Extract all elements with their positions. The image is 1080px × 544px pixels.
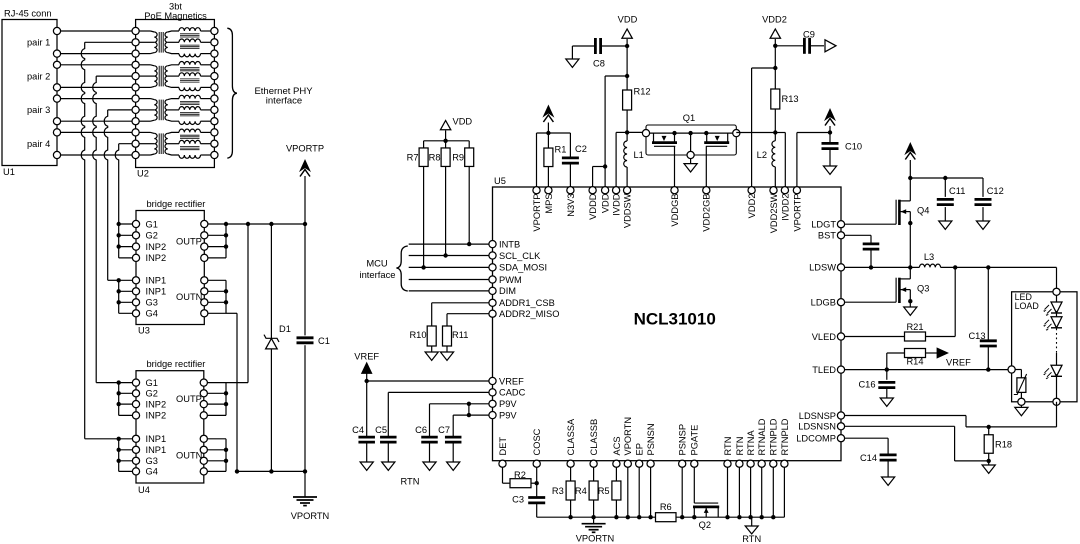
svg-text:R4: R4 <box>575 486 587 496</box>
svg-text:L1: L1 <box>634 150 644 160</box>
svg-text:RTN: RTN <box>735 437 745 456</box>
svg-text:COSC: COSC <box>532 428 542 455</box>
svg-text:U2: U2 <box>137 169 149 179</box>
svg-text:RTNPLD: RTNPLD <box>769 418 779 455</box>
svg-text:L3: L3 <box>924 252 934 262</box>
svg-text:G3: G3 <box>146 298 158 308</box>
svg-text:CLASSB: CLASSB <box>589 419 599 456</box>
svg-text:U1: U1 <box>3 167 15 177</box>
svg-text:ADDR2_MISO: ADDR2_MISO <box>499 309 559 319</box>
svg-text:INTB: INTB <box>499 239 520 249</box>
svg-text:interface: interface <box>360 269 396 280</box>
svg-text:R12: R12 <box>634 87 651 97</box>
svg-text:R21: R21 <box>906 322 923 332</box>
svg-text:C14: C14 <box>860 453 877 463</box>
svg-text:VDD2GB: VDD2GB <box>702 194 712 232</box>
svg-text:INP2: INP2 <box>146 411 167 421</box>
svg-text:R13: R13 <box>782 94 799 104</box>
svg-text:C2: C2 <box>575 144 587 154</box>
svg-text:C13: C13 <box>968 331 985 341</box>
svg-text:R8: R8 <box>429 153 441 163</box>
svg-text:D1: D1 <box>279 324 291 334</box>
svg-text:C10: C10 <box>845 142 862 152</box>
svg-text:pair 3: pair 3 <box>27 105 50 115</box>
svg-text:PSNSN: PSNSN <box>646 423 656 455</box>
svg-text:VDDD: VDDD <box>588 193 598 220</box>
svg-text:C12: C12 <box>987 186 1004 196</box>
svg-text:PSNSP: PSNSP <box>678 424 688 456</box>
svg-text:pair 1: pair 1 <box>27 38 50 48</box>
svg-text:U4: U4 <box>138 485 150 495</box>
svg-text:VPORTN: VPORTN <box>576 534 615 544</box>
svg-text:SCL_CLK: SCL_CLK <box>499 251 541 261</box>
svg-text:C6: C6 <box>415 425 427 435</box>
svg-text:RTN: RTN <box>742 534 761 544</box>
svg-text:VREF: VREF <box>354 352 379 362</box>
svg-text:P9V: P9V <box>499 410 517 420</box>
svg-text:LDSW: LDSW <box>809 263 836 273</box>
svg-text:RTN: RTN <box>401 477 420 487</box>
svg-text:pair 2: pair 2 <box>27 71 50 81</box>
svg-text:R9: R9 <box>452 153 464 163</box>
svg-text:INP1: INP1 <box>146 445 167 455</box>
svg-text:INP2: INP2 <box>146 399 167 409</box>
svg-text:U5: U5 <box>494 176 506 186</box>
svg-text:G4: G4 <box>146 309 158 319</box>
svg-text:INP2: INP2 <box>146 253 167 263</box>
svg-text:INP1: INP1 <box>146 287 167 297</box>
svg-text:R10: R10 <box>409 330 426 340</box>
svg-text:VDD2: VDD2 <box>747 194 757 219</box>
svg-text:CADC: CADC <box>499 388 526 398</box>
svg-text:LDSNSN: LDSNSN <box>798 422 836 432</box>
svg-text:OUTN: OUTN <box>176 451 202 461</box>
svg-text:TLED: TLED <box>812 365 836 375</box>
svg-text:G2: G2 <box>146 231 158 241</box>
svg-text:ACS: ACS <box>612 436 622 455</box>
svg-text:C8: C8 <box>593 59 605 69</box>
svg-text:C9: C9 <box>803 30 815 40</box>
svg-text:U3: U3 <box>138 326 150 336</box>
svg-text:C16: C16 <box>858 380 875 390</box>
svg-text:G3: G3 <box>146 456 158 466</box>
svg-text:RJ-45 conn: RJ-45 conn <box>4 9 52 19</box>
svg-text:R1: R1 <box>555 145 567 155</box>
svg-text:VDDSW: VDDSW <box>623 193 633 228</box>
svg-text:bridge rectifier: bridge rectifier <box>147 199 206 209</box>
svg-text:C7: C7 <box>438 425 450 435</box>
svg-text:VLED: VLED <box>812 332 837 342</box>
svg-text:C4: C4 <box>352 425 364 435</box>
svg-text:R2: R2 <box>514 470 526 480</box>
svg-text:LDCOMP: LDCOMP <box>796 434 836 444</box>
svg-text:N3V3: N3V3 <box>566 194 576 217</box>
svg-text:interface: interface <box>266 96 302 107</box>
svg-text:RTNA: RTNA <box>746 430 756 456</box>
svg-text:RTNPLD: RTNPLD <box>780 418 790 455</box>
svg-text:LDGB: LDGB <box>811 298 836 308</box>
svg-text:BST: BST <box>818 231 836 241</box>
svg-text:C3: C3 <box>512 495 524 505</box>
svg-text:R11: R11 <box>452 330 468 340</box>
svg-text:NCL31010: NCL31010 <box>634 310 716 329</box>
svg-text:RTNALD: RTNALD <box>757 418 767 455</box>
svg-text:EP: EP <box>635 443 645 455</box>
svg-text:C11: C11 <box>949 186 965 196</box>
svg-text:Q1: Q1 <box>683 113 695 123</box>
svg-text:Q2: Q2 <box>699 520 711 530</box>
svg-text:RTN: RTN <box>723 437 733 456</box>
svg-text:MPS: MPS <box>544 194 554 214</box>
svg-text:G4: G4 <box>146 467 158 477</box>
svg-text:LDSNSP: LDSNSP <box>799 411 836 421</box>
svg-text:PoE Magnetics: PoE Magnetics <box>144 11 207 21</box>
svg-text:L2: L2 <box>757 150 767 160</box>
svg-text:ADDR1_CSB: ADDR1_CSB <box>499 298 555 308</box>
svg-text:R7: R7 <box>407 153 419 163</box>
svg-text:C5: C5 <box>375 425 387 435</box>
svg-text:VREF: VREF <box>946 358 971 368</box>
svg-text:VPORTN: VPORTN <box>623 417 633 456</box>
svg-text:DET: DET <box>498 437 508 456</box>
svg-text:3bt: 3bt <box>169 2 182 12</box>
svg-text:VDD2SW: VDD2SW <box>769 193 779 233</box>
svg-text:DIM: DIM <box>499 286 516 296</box>
svg-text:VDD2: VDD2 <box>762 15 787 25</box>
svg-text:G2: G2 <box>146 389 158 399</box>
svg-text:OUTN: OUTN <box>176 292 202 302</box>
svg-text:LOAD: LOAD <box>1015 301 1039 311</box>
svg-text:pair 4: pair 4 <box>27 139 50 149</box>
svg-text:MCU: MCU <box>366 258 388 269</box>
svg-text:Q3: Q3 <box>917 284 929 294</box>
svg-text:R5: R5 <box>598 486 610 496</box>
svg-text:VDDGB: VDDGB <box>670 194 680 227</box>
svg-text:VREF: VREF <box>499 376 524 386</box>
svg-text:PWM: PWM <box>499 275 522 285</box>
svg-text:R6: R6 <box>660 502 672 512</box>
svg-text:bridge rectifier: bridge rectifier <box>147 359 206 369</box>
svg-text:OUTP: OUTP <box>176 236 202 246</box>
svg-text:VDD: VDD <box>453 117 473 127</box>
svg-text:PGATE: PGATE <box>690 425 700 456</box>
svg-text:R18: R18 <box>995 440 1012 450</box>
svg-text:G1: G1 <box>146 219 158 229</box>
svg-text:C1: C1 <box>318 336 330 346</box>
svg-text:VPORTN: VPORTN <box>291 511 330 521</box>
svg-text:SDA_MOSI: SDA_MOSI <box>499 263 547 273</box>
svg-text:R3: R3 <box>552 486 564 496</box>
svg-text:VPORTP: VPORTP <box>532 194 542 232</box>
svg-text:INP1: INP1 <box>146 276 167 286</box>
svg-text:LDGT: LDGT <box>811 220 836 230</box>
svg-text:VDD: VDD <box>601 193 611 213</box>
svg-text:OUTP: OUTP <box>176 394 202 404</box>
svg-text:P9V: P9V <box>499 399 517 409</box>
svg-text:IVDD2: IVDD2 <box>780 194 790 221</box>
svg-text:IVDD: IVDD <box>612 193 622 215</box>
svg-text:CLASSA: CLASSA <box>566 418 576 455</box>
svg-text:Q4: Q4 <box>917 206 929 216</box>
svg-text:INP2: INP2 <box>146 242 167 252</box>
svg-text:VPORTP: VPORTP <box>792 194 802 232</box>
svg-text:VDD: VDD <box>618 15 638 25</box>
svg-text:G1: G1 <box>146 378 158 388</box>
svg-text:R14: R14 <box>906 357 923 367</box>
svg-text:VPORTP: VPORTP <box>286 144 324 154</box>
svg-text:INP1: INP1 <box>146 434 167 444</box>
